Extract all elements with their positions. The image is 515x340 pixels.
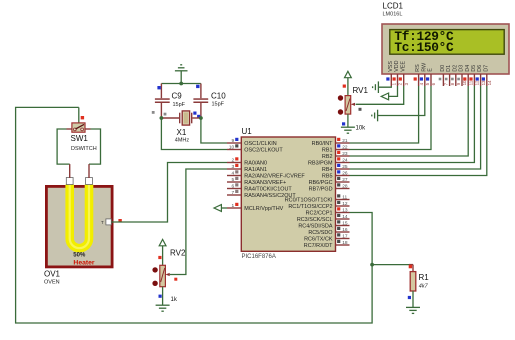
ground for LCD VSS	[373, 81, 379, 93]
svg-text:2: 2	[398, 82, 403, 85]
wire R1 to ground	[412, 291, 414, 307]
svg-text:7: 7	[444, 82, 449, 85]
svg-text:D5: D5	[471, 65, 477, 72]
svg-text:RB1: RB1	[322, 148, 333, 154]
svg-text:D2: D2	[452, 65, 458, 72]
oven terminal left	[66, 178, 73, 185]
wire RV2 wiper to RA1	[170, 169, 227, 275]
wire RV2 to ground	[162, 287, 164, 305]
svg-text:9: 9	[232, 138, 235, 144]
wire C9 to OSC2	[161, 118, 227, 150]
svg-text:RB0/INT: RB0/INT	[312, 141, 334, 147]
wire loop top into SW1	[78, 107, 80, 123]
svg-text:15pF: 15pF	[212, 102, 225, 108]
microcontroller U1 reference label	[242, 127, 253, 136]
switch SW1 marker square	[81, 116, 84, 119]
svg-text:D3: D3	[459, 65, 465, 72]
svg-text:X1: X1	[177, 128, 187, 137]
svg-text:1: 1	[232, 203, 235, 209]
oven OV1 body	[46, 186, 112, 267]
svg-text:2: 2	[232, 157, 235, 163]
crystal X1	[161, 111, 201, 143]
wire C10 to OSC1	[201, 118, 227, 143]
svg-text:Tc:150°C: Tc:150°C	[394, 40, 454, 55]
wire D6 to RB4	[350, 86, 481, 169]
svg-text:RS: RS	[415, 64, 421, 72]
ground below RV1	[341, 127, 355, 133]
svg-text:5: 5	[232, 177, 235, 183]
svg-text:LM016L: LM016L	[383, 12, 403, 18]
svg-text:7: 7	[232, 190, 235, 196]
LCD display LCD1 reference label	[383, 2, 404, 18]
wire oven T to RA0	[111, 163, 227, 223]
svg-text:D0: D0	[440, 65, 446, 72]
svg-text:PIC16F876A: PIC16F876A	[242, 254, 276, 260]
svg-text:1k: 1k	[171, 297, 178, 303]
svg-text:6: 6	[431, 82, 436, 85]
LCD text line1 Tf:129°C	[394, 29, 454, 44]
svg-text:RC1/T1OSI/CCP2: RC1/T1OSI/CCP2	[288, 204, 332, 210]
wire RC2 heater control loop	[16, 107, 373, 323]
wire D4 to RB2	[350, 86, 469, 156]
svg-text:RV2: RV2	[170, 249, 186, 258]
svg-text:RW: RW	[421, 62, 427, 72]
R1 blue state square	[408, 296, 411, 299]
svg-text:16: 16	[342, 227, 348, 233]
capacitor C10	[193, 84, 226, 119]
wire VSS to ground	[378, 86, 391, 87]
switch SW1 labels	[71, 134, 97, 152]
svg-text:D6: D6	[477, 65, 483, 72]
wire RW to ground	[378, 86, 425, 116]
R1 marker square	[409, 265, 412, 268]
svg-text:RC4/SDI/SDA: RC4/SDI/SDA	[298, 224, 333, 230]
svg-text:RB4: RB4	[322, 167, 333, 173]
svg-text:RA1/AN1: RA1/AN1	[244, 167, 267, 173]
wire D7 to RB5	[350, 86, 487, 176]
svg-text:15: 15	[342, 220, 348, 226]
node junction C10 bottom	[199, 116, 203, 120]
svg-text:RC6/TX/CK: RC6/TX/CK	[304, 237, 333, 243]
svg-text:RB5: RB5	[322, 174, 333, 180]
svg-text:23: 23	[342, 151, 348, 157]
RV1 marker square	[343, 85, 346, 88]
svg-text:R1: R1	[419, 273, 430, 282]
svg-text:U1: U1	[242, 127, 253, 136]
node junction loop to R1	[370, 263, 374, 267]
svg-text:RB6/PGC: RB6/PGC	[309, 180, 333, 186]
node junction at ground stem	[179, 82, 183, 86]
svg-text:OSC2/CLKOUT: OSC2/CLKOUT	[244, 148, 283, 154]
svg-text:DSWITCH: DSWITCH	[71, 146, 97, 152]
svg-text:11: 11	[468, 80, 473, 85]
heater labels 50% Heater	[73, 253, 95, 267]
svg-text:14: 14	[487, 80, 492, 85]
svg-text:E: E	[428, 68, 434, 72]
svg-text:50%: 50%	[73, 253, 86, 259]
svg-text:13: 13	[342, 207, 348, 213]
resistor R1	[410, 272, 429, 291]
svg-text:RC3/SCK/SCL: RC3/SCK/SCL	[297, 217, 333, 223]
svg-text:OSC1/CLKIN: OSC1/CLKIN	[244, 141, 276, 147]
svg-text:21: 21	[342, 138, 348, 144]
wire C9 top to C10 top	[161, 83, 201, 85]
op body U1 PIC16F876A	[241, 137, 335, 251]
svg-text:25: 25	[342, 164, 348, 170]
svg-text:9: 9	[456, 82, 461, 85]
svg-text:D1: D1	[446, 65, 452, 72]
RV1 wiper state square	[359, 108, 362, 111]
wire RV1 to ground	[347, 114, 349, 127]
wire junction to R1	[372, 265, 413, 272]
svg-text:RA2/AN2/VREF-/CVREF: RA2/AN2/VREF-/CVREF	[244, 174, 305, 180]
svg-text:4MHz: 4MHz	[175, 137, 190, 143]
svg-text:RB7/PGD: RB7/PGD	[309, 187, 333, 193]
svg-text:4k7: 4k7	[419, 283, 429, 289]
svg-text:3: 3	[232, 164, 235, 170]
ground below RV2	[156, 305, 170, 311]
potentiometer RV2	[152, 249, 186, 304]
svg-text:4: 4	[419, 82, 424, 85]
wire SW1 right pin to right heater terminal	[89, 129, 101, 178]
svg-text:28: 28	[342, 183, 348, 189]
wire D5 to RB3	[350, 86, 475, 163]
svg-text:26: 26	[342, 170, 348, 176]
svg-text:VSS: VSS	[388, 61, 394, 72]
svg-text:LCD1: LCD1	[383, 2, 404, 11]
svg-text:RC7/RX/DT: RC7/RX/DT	[304, 243, 333, 249]
ground for LCD RW	[372, 110, 378, 122]
svg-text:12: 12	[342, 201, 348, 207]
svg-text:OV1: OV1	[44, 270, 61, 279]
svg-text:4: 4	[232, 170, 235, 176]
LCD pins with names, numbers and state squares	[386, 60, 492, 86]
svg-text:RA0/AN0: RA0/AN0	[244, 161, 267, 167]
power arrow above RV1	[345, 71, 352, 95]
svg-text:RB2: RB2	[322, 154, 333, 160]
svg-text:27: 27	[342, 177, 348, 183]
svg-text:3: 3	[404, 82, 409, 85]
svg-text:RC2/CCP1: RC2/CCP1	[306, 211, 333, 217]
LCD LM016L body	[382, 24, 509, 74]
svg-text:D4: D4	[465, 65, 471, 72]
svg-text:8: 8	[450, 82, 455, 85]
RV2 blue state square	[159, 295, 162, 298]
potentiometer RV1	[338, 86, 369, 132]
svg-text:MCLR/Vpp/THV: MCLR/Vpp/THV	[244, 206, 283, 212]
RV1 blue state square	[342, 122, 345, 125]
svg-text:5: 5	[425, 82, 430, 85]
svg-text:RA4/T0CKI/C1OUT: RA4/T0CKI/C1OUT	[244, 187, 292, 193]
U1 left pins OSC1 OSC2 RA0-RA5 MCLR with numbers	[227, 138, 305, 212]
svg-text:18: 18	[342, 240, 348, 246]
svg-text:VDD: VDD	[394, 60, 400, 71]
power arrow MCLR pin 1	[214, 205, 227, 212]
node junction C9 bottom	[160, 116, 164, 120]
svg-text:RB3/PGM: RB3/PGM	[308, 161, 333, 167]
state squares near capacitors	[152, 85, 201, 118]
power arrow above RV2	[159, 239, 166, 265]
svg-text:1: 1	[392, 82, 397, 85]
svg-text:VEE: VEE	[400, 61, 406, 72]
svg-text:17: 17	[342, 233, 348, 239]
svg-text:RV1: RV1	[353, 86, 369, 95]
svg-text:12: 12	[475, 80, 480, 85]
svg-text:RC5/SDO: RC5/SDO	[308, 230, 332, 236]
svg-text:14: 14	[342, 214, 348, 220]
svg-text:OVEN: OVEN	[44, 280, 60, 286]
svg-text:15pF: 15pF	[173, 102, 186, 108]
power arrow VDD	[381, 93, 388, 100]
svg-text:6: 6	[232, 183, 235, 189]
svg-text:SW1: SW1	[71, 134, 89, 143]
ground below R1	[406, 307, 420, 313]
svg-text:T: T	[101, 220, 104, 225]
svg-text:22: 22	[342, 144, 348, 150]
wire RS to RB0	[350, 86, 419, 143]
svg-text:Heater: Heater	[73, 260, 95, 267]
svg-text:C10: C10	[211, 92, 226, 101]
oven labels OV1 OVEN	[44, 270, 61, 286]
oven T terminal	[101, 219, 111, 225]
RV2 wiper state square	[174, 278, 177, 281]
svg-text:RA3/AN3/VREF+: RA3/AN3/VREF+	[244, 180, 286, 186]
svg-text:24: 24	[342, 157, 348, 163]
svg-text:10: 10	[229, 144, 235, 150]
svg-text:D7: D7	[483, 65, 489, 72]
wire SW1 left pin to left heater terminal	[57, 129, 70, 178]
switch SW1	[67, 123, 91, 132]
heater element yellow U	[70, 185, 89, 249]
wire VDD to power arrow	[389, 86, 398, 96]
svg-text:13: 13	[481, 80, 486, 85]
LCD text line2 Tc:150°C	[394, 40, 454, 55]
wire VEE to RV1 wiper	[356, 86, 404, 104]
LCD screen	[390, 30, 504, 55]
svg-text:RC0/T1OSO/T1CKI: RC0/T1OSO/T1CKI	[285, 198, 333, 204]
ground above C9 C10	[175, 65, 188, 84]
wire E to RB1	[350, 86, 432, 150]
svg-text:C9: C9	[172, 92, 183, 101]
oven terminal right	[86, 178, 93, 185]
oven T marker square	[118, 219, 121, 222]
RV2 marker square	[158, 256, 161, 259]
capacitor C9	[155, 84, 186, 119]
svg-text:11: 11	[342, 194, 347, 200]
U1 right pins RB0-RB7 RC0-RC7 with numbers	[285, 138, 350, 249]
svg-text:10k: 10k	[356, 126, 367, 132]
svg-text:10: 10	[462, 80, 467, 85]
U1 part number label	[242, 254, 276, 260]
